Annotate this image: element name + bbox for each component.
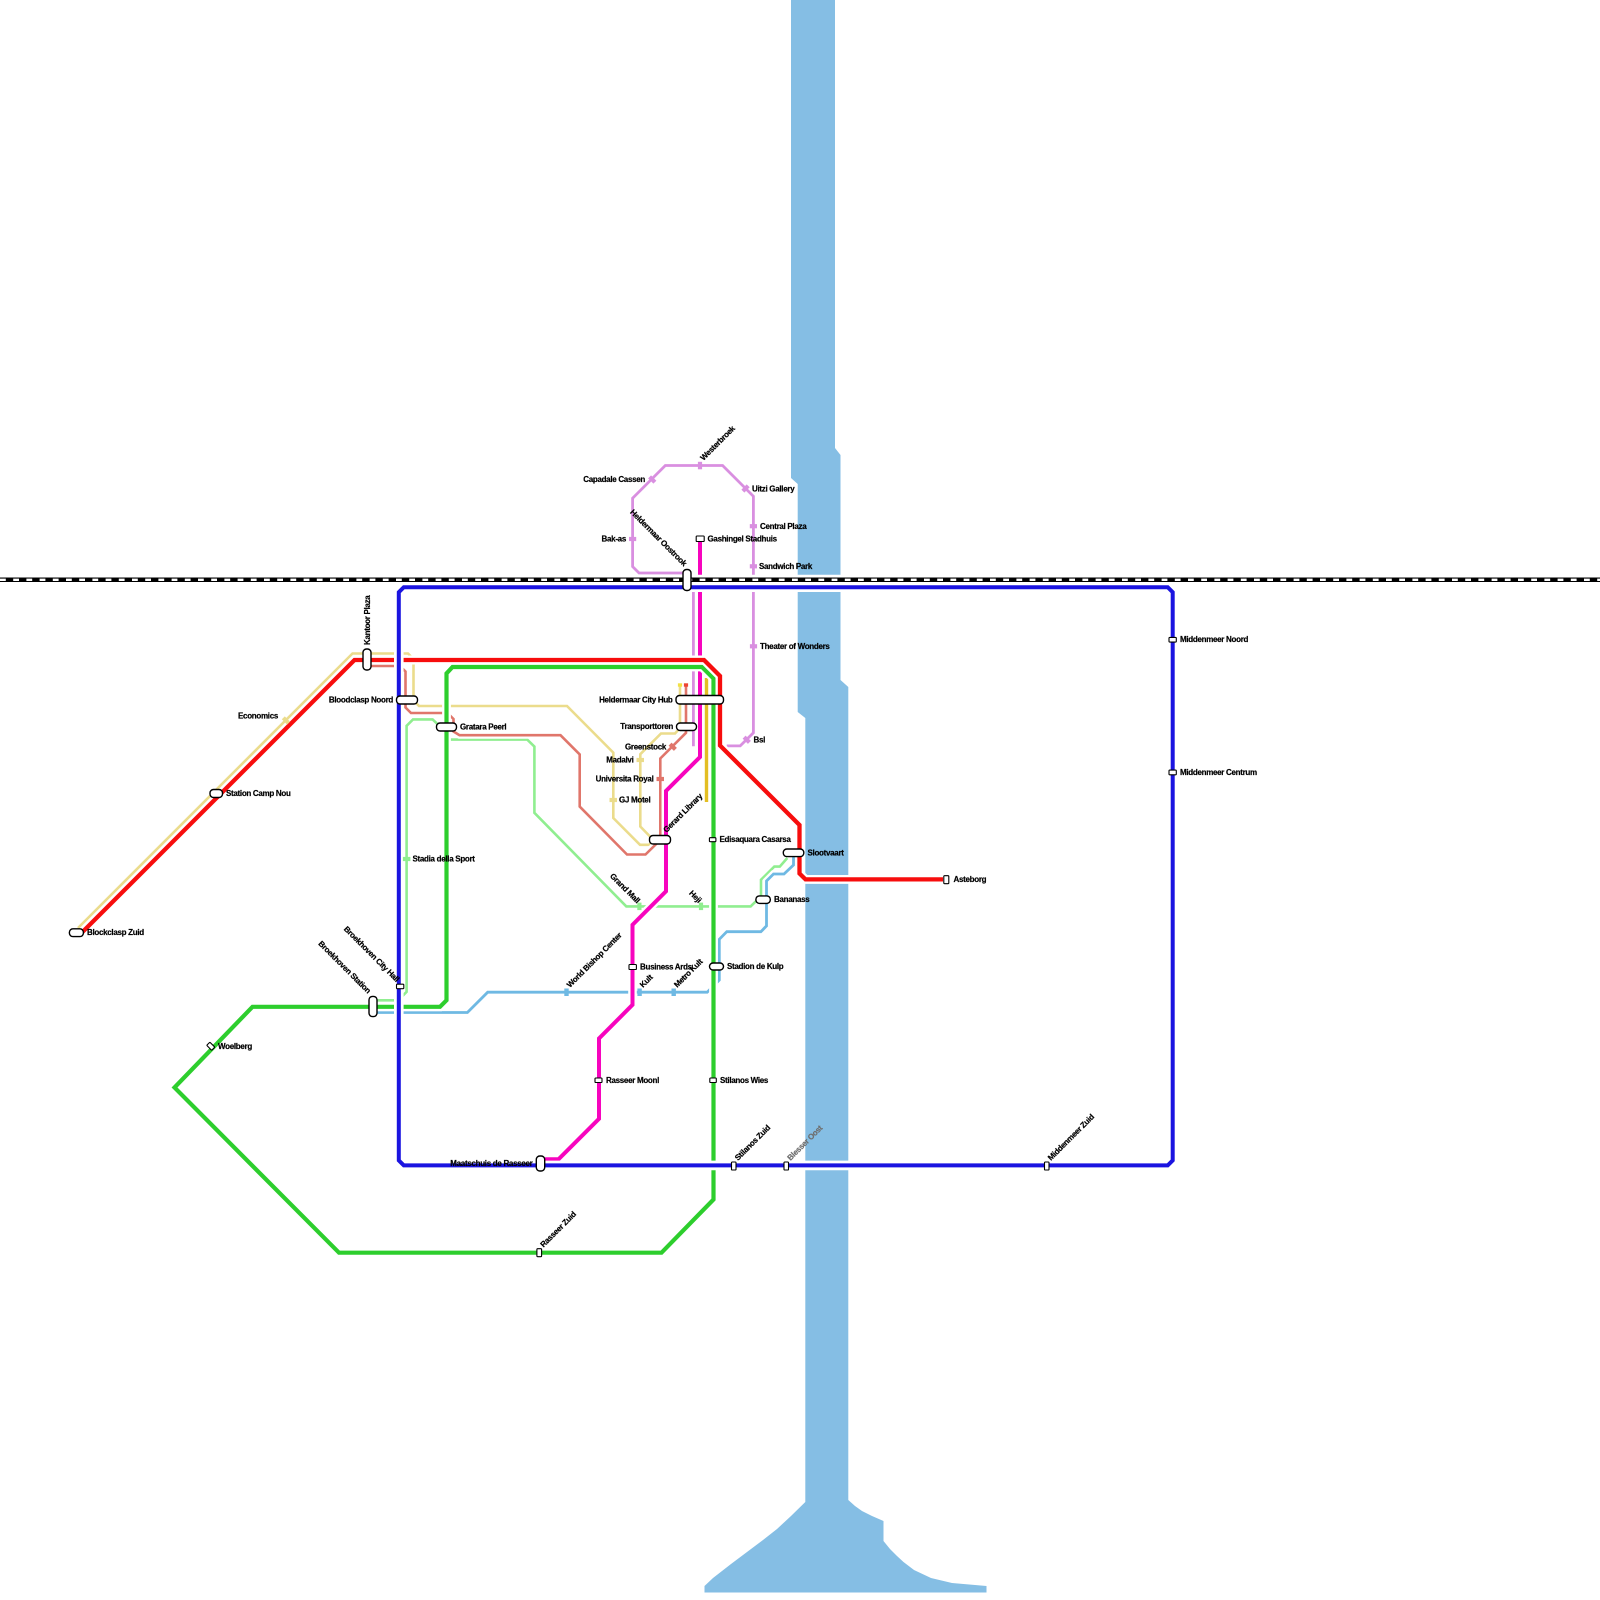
svg-text:Bsl: Bsl	[754, 735, 766, 744]
svg-text:Rasseer Moonl: Rasseer Moonl	[606, 1076, 659, 1085]
salmon line (Kantoor Plaza - Gratara Peerl - Gerard Library - Greenstock - City Hub)	[370, 666, 686, 855]
gold line stub	[703, 678, 711, 802]
khaki line west (Bloodclasp Zuid to Gerard Library)	[78, 654, 655, 929]
salmon line terminus cap	[684, 683, 688, 686]
plum line octagon and east branch (Theater of Wonders, Bsl)	[633, 466, 754, 746]
station Maatschuis de Rasseer	[536, 1156, 544, 1171]
svg-text:Economics: Economics	[238, 712, 279, 721]
station Bananass	[756, 896, 770, 904]
station tick Stadia della Sport	[403, 857, 411, 861]
svg-text:Central Plaza: Central Plaza	[760, 522, 807, 531]
green loop line	[175, 667, 714, 1253]
station Middenmeer Zuid	[1045, 1162, 1050, 1170]
station tick Central Plaza	[750, 524, 757, 528]
station Stilanos Wies	[710, 1078, 717, 1083]
railway dashed line	[0, 575, 1600, 585]
svg-text:Maatschuis de Rasseer: Maatschuis de Rasseer	[450, 1159, 532, 1168]
svg-text:Slootvaart: Slootvaart	[808, 849, 845, 858]
svg-text:Transporttoren: Transporttoren	[620, 722, 673, 731]
station tick Economics	[282, 716, 290, 724]
station Edisaquara Casarsa	[709, 838, 716, 842]
svg-text:Middenmeer Noord: Middenmeer Noord	[1180, 635, 1249, 644]
svg-text:Kantoor Plaza: Kantoor Plaza	[363, 595, 372, 645]
svg-text:GJ Motel: GJ Motel	[619, 796, 650, 805]
station tick Heji	[699, 903, 703, 911]
station tick Greenstock	[669, 743, 677, 751]
light blue line (Slootvaart to Broekhoven)	[377, 857, 794, 1013]
station tick World Bishop Center	[564, 989, 568, 997]
svg-text:Gashingel Stadhuis: Gashingel Stadhuis	[708, 534, 778, 543]
station Gratara Peerl	[437, 723, 457, 731]
svg-text:Heldermaar Oostrook: Heldermaar Oostrook	[628, 508, 689, 569]
station tick Bsl	[743, 736, 751, 744]
station Broekhoven City Hall	[397, 984, 404, 989]
station Business Ards	[629, 965, 636, 970]
svg-text:Sandwich Park: Sandwich Park	[759, 562, 813, 571]
svg-text:Stilanos Zuid: Stilanos Zuid	[733, 1123, 772, 1162]
pale green line main (Gratara Peerl - Grand Mall - Bananass)	[444, 732, 757, 907]
station Asteborg	[944, 876, 949, 884]
svg-text:Blockclasp Zuid: Blockclasp Zuid	[87, 928, 144, 937]
svg-text:Universita Royal: Universita Royal	[596, 775, 654, 784]
station Kantoor Plaza	[363, 649, 371, 670]
station Broekhoven Station	[369, 996, 377, 1016]
pale green line west branch (Broekhoven to Gratara Peerl)	[377, 719, 439, 1000]
station tick Bak-as	[629, 537, 636, 541]
station tick Capadale Cassen	[648, 475, 656, 483]
svg-text:Stadion de Kulp: Stadion de Kulp	[727, 962, 784, 971]
plum line south branch (Oostrook - City Hub terminus)	[690, 591, 697, 746]
svg-text:Heldermaar City Hub: Heldermaar City Hub	[599, 695, 673, 704]
svg-text:World Bishop Center: World Bishop Center	[565, 931, 624, 990]
svg-text:Capadale Cassen: Capadale Cassen	[583, 475, 645, 484]
svg-text:Rasseer Zuid: Rasseer Zuid	[539, 1210, 579, 1250]
svg-text:Business Ards: Business Ards	[640, 963, 693, 972]
svg-text:Asteborg: Asteborg	[954, 875, 987, 884]
station Blesser Oost	[784, 1162, 789, 1170]
svg-text:Uitzi Gallery: Uitzi Gallery	[752, 485, 795, 494]
station tick Metro Kult	[672, 989, 676, 997]
svg-text:Stilanos Wies: Stilanos Wies	[720, 1076, 769, 1085]
station Rasseer Zuid	[537, 1249, 542, 1257]
svg-text:Gratara Peerl: Gratara Peerl	[460, 723, 506, 732]
svg-text:Stadia della Sport: Stadia della Sport	[413, 855, 476, 864]
station Heldermaar Oostrook	[683, 570, 691, 591]
svg-text:Middenmeer Zuid: Middenmeer Zuid	[1046, 1112, 1096, 1162]
svg-text:Bak-as: Bak-as	[602, 535, 627, 544]
station Slootvaart	[783, 849, 804, 857]
khaki line terminus cap	[678, 683, 682, 686]
station Bloodclasp Zuid	[69, 929, 83, 937]
svg-text:Westerbroek: Westerbroek	[699, 424, 738, 463]
svg-text:Edisaquara Casarsa: Edisaquara Casarsa	[720, 835, 792, 844]
khaki line east (City Hub - Transporttoren - Madalvi - Gerard Library)	[640, 686, 680, 837]
station Heldermaar City Hub	[676, 696, 724, 705]
station Rasseer Moonl	[595, 1078, 602, 1083]
station tick Sandwich Park	[750, 564, 757, 568]
station tick Universita Royal	[657, 777, 665, 781]
svg-text:Greenstock: Greenstock	[625, 742, 667, 751]
station Bloodclasp Noord	[397, 696, 418, 704]
red line (Bloodclasp Zuid to Asteborg)	[80, 660, 943, 935]
station tick Madalvi	[637, 758, 645, 762]
station Station Camp Nou	[210, 790, 223, 798]
svg-text:Woelberg: Woelberg	[218, 1042, 252, 1051]
station Transporttoren	[677, 723, 697, 731]
station Gashtngel Stadhuis	[696, 536, 704, 542]
station Stadion de Kulp	[710, 963, 724, 970]
svg-text:Theater of Wonders: Theater of Wonders	[760, 642, 830, 651]
svg-text:Middenmeer Centrum: Middenmeer Centrum	[1180, 768, 1257, 777]
magenta line (Gashtngel Stadhuis to Maatschuis de Rasseer)	[545, 542, 700, 1160]
pale green line north branch (Bananass - Slootvaart)	[761, 858, 787, 898]
svg-text:Bananass: Bananass	[774, 895, 810, 904]
station tick Theater of Wonders	[750, 644, 757, 648]
station Gerard Library	[650, 836, 671, 845]
station tick Uitzi Gallery	[741, 484, 749, 492]
svg-text:Madalvi: Madalvi	[606, 756, 633, 765]
station Woelberg	[207, 1042, 215, 1050]
station Middenmeer Noord	[1169, 637, 1176, 642]
station tick GJ Motel	[610, 798, 618, 802]
station tick Grand Mall	[637, 903, 641, 911]
svg-text:Heji: Heji	[687, 889, 703, 905]
station Middenmeer Centrum	[1169, 770, 1176, 775]
svg-text:Station Camp Nou: Station Camp Nou	[226, 789, 291, 798]
river	[705, 0, 987, 1593]
station tick Westerbroek	[698, 462, 702, 470]
blue loop line	[399, 587, 1173, 1165]
station tick Kult	[637, 989, 641, 997]
svg-text:Kult: Kult	[638, 972, 655, 989]
svg-text:Bloodclasp Noord: Bloodclasp Noord	[329, 696, 394, 705]
station Stilanos Zuid	[732, 1162, 737, 1170]
